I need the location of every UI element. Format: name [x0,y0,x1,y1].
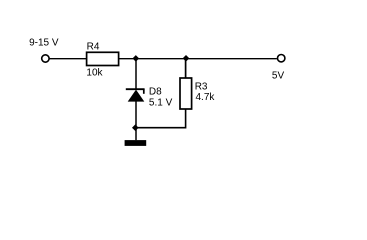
junction node B [183,55,190,62]
svg-text:R4: R4 [87,42,100,53]
wire R3 bottom to ground node [135,109,185,128]
wire node A to node B [136,58,186,60]
junction node A [133,55,140,62]
svg-text:D8: D8 [149,86,162,97]
svg-text:5.1 V: 5.1 V [149,98,173,109]
wire node B to 5V terminal [186,58,277,60]
zener diode D8 [126,89,145,101]
wire D8 anode to ground node [135,101,137,128]
svg-text:9-15 V: 9-15 V [29,38,59,49]
svg-text:4.7k: 4.7k [196,92,216,103]
wire ground node to ground symbol [135,128,137,141]
terminal pad VIN [42,55,49,62]
wire node A to D8 cathode [135,59,137,89]
wire VIN to R4 [50,58,87,60]
terminal pad 5V [278,55,285,62]
junction ground node [132,124,139,131]
wire node B to R3 top [185,59,187,78]
resistor R3 [180,78,192,109]
svg-text:10k: 10k [86,67,103,78]
resistor R4 [87,52,119,65]
ground [125,140,147,146]
svg-text:5V: 5V [272,70,285,81]
wire R4 to node A [118,58,136,60]
